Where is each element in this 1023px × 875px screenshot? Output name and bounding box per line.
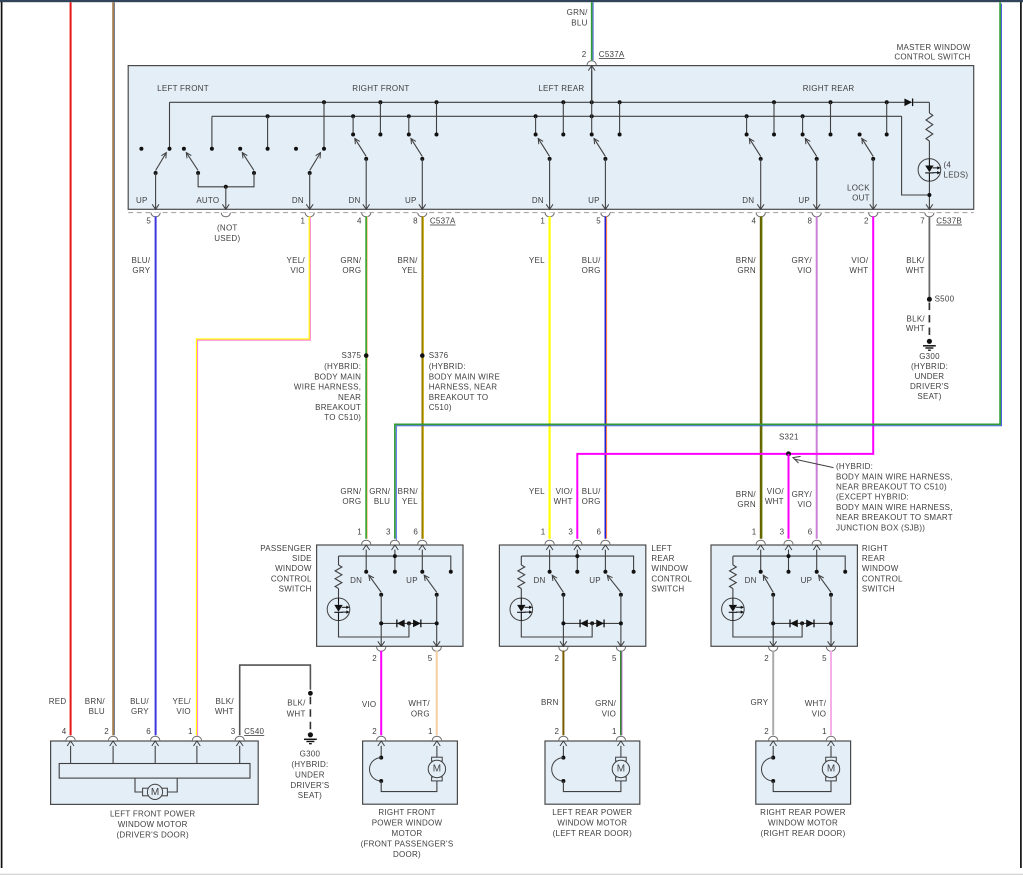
LF AUTO stem bbox=[225, 187, 227, 209]
svg-text:1: 1 bbox=[612, 727, 617, 736]
svg-text:CONTROL: CONTROL bbox=[862, 574, 903, 583]
RR UP stem to pin 8 bbox=[816, 159, 818, 209]
link to motor bbox=[381, 781, 437, 792]
svg-text:(DRIVER'S DOOR): (DRIVER'S DOOR) bbox=[117, 830, 189, 839]
svg-text:ORG: ORG bbox=[342, 497, 361, 506]
svg-text:HARNESS, NEAR: HARNESS, NEAR bbox=[429, 383, 498, 392]
svg-text:1: 1 bbox=[428, 727, 433, 736]
bus2 right drop to LED return bbox=[902, 116, 930, 195]
svg-text:JUNCTION BOX (SJB)): JUNCTION BOX (SJB)) bbox=[836, 523, 925, 532]
svg-text:DN: DN bbox=[292, 196, 304, 205]
svg-text:UP: UP bbox=[405, 196, 417, 205]
junction centre bbox=[800, 621, 804, 625]
svg-text:SEAT): SEAT) bbox=[917, 392, 941, 401]
svg-text:WIRE HARNESS,: WIRE HARNESS, bbox=[294, 383, 361, 392]
motor pin 6 entry bbox=[151, 736, 160, 740]
power window motor box bbox=[363, 741, 458, 804]
svg-text:CONTROL: CONTROL bbox=[651, 574, 692, 583]
svg-text:BODY MAIN WIRE: BODY MAIN WIRE bbox=[429, 372, 500, 381]
svg-text:DN: DN bbox=[742, 196, 754, 205]
svg-text:(HYBRID:: (HYBRID: bbox=[836, 462, 873, 471]
page left border bbox=[1, 2, 3, 868]
wire WHT/VIO right rear pin5 to motor pin 1 bbox=[830, 651, 832, 736]
RF UP stem to pin 8 bbox=[421, 159, 423, 209]
master window control switch box bbox=[128, 66, 974, 210]
junction right bbox=[829, 621, 833, 625]
svg-text:6: 6 bbox=[413, 527, 418, 536]
svg-text:(FRONT PASSENGER'S: (FRONT PASSENGER'S bbox=[361, 839, 454, 848]
lockout stem to pin 2 bbox=[872, 159, 874, 209]
wire RED (battery feed) bbox=[70, 2, 72, 735]
position switch arc bbox=[762, 758, 774, 781]
svg-text:SWITCH: SWITCH bbox=[862, 584, 895, 593]
junction centre bbox=[590, 621, 594, 625]
LED (4 LEDS) bbox=[928, 141, 930, 159]
svg-text:1: 1 bbox=[541, 527, 546, 536]
svg-text:DN: DN bbox=[534, 576, 546, 585]
diode left (points left) bbox=[790, 620, 798, 628]
svg-text:NEAR BREAKOUT TO C510): NEAR BREAKOUT TO C510) bbox=[836, 483, 947, 492]
LF UP pivot bbox=[154, 171, 158, 175]
svg-text:GRY/: GRY/ bbox=[792, 490, 813, 499]
LF AUTO pivot 2 bbox=[252, 171, 256, 175]
internal bus bar bbox=[59, 764, 250, 779]
window control switch box bbox=[711, 545, 857, 646]
wire BLK/WHT pin7 to S500 bbox=[928, 216, 930, 297]
drop bus1 to LF DN contact bbox=[323, 102, 325, 147]
svg-text:GRN/: GRN/ bbox=[369, 487, 391, 496]
drop from bus 2 bbox=[535, 116, 537, 133]
pin 1 entry bbox=[363, 545, 370, 550]
pin 3 contact bbox=[393, 570, 397, 574]
svg-text:VIO/: VIO/ bbox=[851, 256, 869, 265]
connector arc bbox=[390, 540, 399, 544]
wire BRN/BLU bbox=[112, 2, 114, 735]
svg-text:6: 6 bbox=[596, 527, 601, 536]
junction on bus 2 bbox=[590, 114, 594, 118]
DN stem to pin 2 bbox=[772, 595, 774, 646]
svg-text:G300: G300 bbox=[300, 750, 321, 759]
RF DN pivot bbox=[364, 157, 368, 161]
LF UP switch arm bbox=[156, 153, 167, 171]
diode crossover line bbox=[773, 622, 831, 624]
junction right bbox=[619, 621, 623, 625]
drop from bus 2 bbox=[746, 116, 748, 133]
drop from bus 1 bbox=[379, 102, 381, 133]
UP stem to pin 5 bbox=[620, 595, 622, 646]
drop from bus 2 bbox=[408, 116, 410, 133]
svg-text:5: 5 bbox=[428, 654, 433, 663]
svg-text:8: 8 bbox=[807, 217, 812, 226]
pin 3 contact bbox=[787, 570, 791, 574]
motor pin 2 entry bbox=[109, 736, 118, 740]
svg-text:BLU/: BLU/ bbox=[130, 697, 149, 706]
dashed BLK/WHT to left ground bbox=[309, 697, 311, 731]
position switch contact lower bbox=[561, 779, 565, 783]
svg-text:VIO: VIO bbox=[797, 266, 812, 275]
connector arc pin 4 bbox=[756, 213, 765, 217]
svg-text:GRY: GRY bbox=[750, 698, 768, 707]
LF DN switch arm bbox=[310, 153, 321, 171]
junction on bus 1 bbox=[772, 100, 776, 104]
svg-text:6: 6 bbox=[808, 527, 813, 536]
svg-text:1: 1 bbox=[188, 727, 193, 736]
DN switch arm bbox=[552, 575, 563, 592]
LR DN stem to pin 1 bbox=[549, 159, 551, 209]
svg-text:C537B: C537B bbox=[936, 217, 962, 226]
window control switch box bbox=[317, 545, 463, 646]
svg-text:USED): USED) bbox=[214, 234, 240, 243]
svg-text:BLU/: BLU/ bbox=[582, 256, 601, 265]
diode right (points right) bbox=[413, 620, 421, 628]
svg-text:YEL: YEL bbox=[402, 497, 418, 506]
position switch contact upper bbox=[561, 756, 565, 760]
illumination resistor bbox=[338, 556, 340, 565]
svg-text:GRY/: GRY/ bbox=[791, 256, 812, 265]
power window motor box bbox=[545, 741, 640, 804]
svg-text:UP: UP bbox=[136, 196, 148, 205]
motor M bbox=[616, 757, 627, 761]
svg-text:4: 4 bbox=[751, 217, 756, 226]
diode right (points right) bbox=[806, 620, 814, 628]
svg-text:ORG: ORG bbox=[342, 266, 361, 275]
svg-text:1: 1 bbox=[357, 527, 362, 536]
svg-text:TO C510): TO C510) bbox=[324, 413, 361, 422]
LF contact dots bbox=[139, 147, 143, 151]
wire GRY right rear pin2 to motor pin 2 bbox=[772, 651, 774, 736]
svg-text:S375: S375 bbox=[342, 351, 362, 360]
svg-text:SWITCH: SWITCH bbox=[651, 584, 684, 593]
junction left bbox=[379, 621, 383, 625]
drop from bus 2 bbox=[352, 116, 354, 133]
svg-text:MOTOR: MOTOR bbox=[392, 829, 423, 838]
lockout pivot bbox=[871, 157, 875, 161]
motor M bbox=[432, 757, 443, 761]
svg-text:2: 2 bbox=[864, 217, 869, 226]
svg-text:BLU: BLU bbox=[374, 497, 390, 506]
svg-text:SEAT): SEAT) bbox=[298, 791, 322, 800]
LR UP stem to pin 5 bbox=[604, 159, 606, 209]
wire BLU/GRY pin5 to motor pin 6 bbox=[155, 216, 157, 735]
pin 6 entry bbox=[602, 545, 609, 550]
svg-text:(HYBRID:: (HYBRID: bbox=[911, 362, 948, 371]
junction right bbox=[435, 621, 439, 625]
svg-text:CONTROL SWITCH: CONTROL SWITCH bbox=[894, 53, 970, 62]
connector arc pin 5 bbox=[601, 213, 610, 217]
DN stem to pin 2 bbox=[380, 595, 382, 646]
motor M (left front) bbox=[135, 778, 143, 792]
svg-text:GRN/: GRN/ bbox=[340, 487, 362, 496]
svg-text:VIO/: VIO/ bbox=[556, 487, 574, 496]
wire GRN/BLU to pin 2 top bbox=[591, 2, 593, 60]
svg-text:BRN/: BRN/ bbox=[397, 256, 418, 265]
svg-text:2: 2 bbox=[554, 727, 559, 736]
diode D1 on bus 1 bbox=[904, 99, 912, 107]
pin 6 entry bbox=[419, 545, 426, 550]
svg-text:CONTROL: CONTROL bbox=[271, 574, 312, 583]
svg-text:LEFT REAR: LEFT REAR bbox=[538, 84, 584, 93]
RF contact dots bbox=[351, 133, 355, 137]
svg-text:DRIVER'S: DRIVER'S bbox=[290, 781, 329, 790]
UP switch arm bbox=[424, 575, 437, 592]
svg-text:BREAKOUT: BREAKOUT bbox=[315, 403, 361, 412]
junction on bus 1 bbox=[885, 100, 889, 104]
RR UP switch arm bbox=[805, 138, 816, 156]
svg-text:DOOR): DOOR) bbox=[393, 850, 421, 859]
drop from bus 1 bbox=[773, 102, 775, 133]
drop from bus 1 bbox=[830, 102, 832, 133]
svg-text:NEAR BREAKOUT TO SMART: NEAR BREAKOUT TO SMART bbox=[836, 513, 953, 522]
bus2 left drop to contact bbox=[211, 116, 213, 147]
pin 3 entry bbox=[392, 545, 399, 550]
svg-text:VIO: VIO bbox=[797, 500, 812, 509]
svg-text:LEFT REAR POWER: LEFT REAR POWER bbox=[552, 808, 632, 817]
wire BLK/WHT motor pin 3 to G300 (left) bbox=[240, 665, 311, 735]
wire VIO/WHT S321 branch to right rear switch pin 3 bbox=[788, 454, 790, 539]
junction on bus 1 bbox=[829, 100, 833, 104]
connector arc bbox=[362, 540, 371, 544]
pin 2 entry bbox=[559, 736, 568, 740]
junction left bbox=[771, 621, 775, 625]
svg-text:LEDS): LEDS) bbox=[944, 171, 969, 180]
connector arc bbox=[573, 540, 582, 544]
pin 2 feed vertical inside box bbox=[591, 66, 593, 133]
drop from bus 1 bbox=[886, 102, 888, 133]
svg-text:2: 2 bbox=[372, 654, 377, 663]
junction on bus 2 bbox=[351, 114, 355, 118]
wire GRY/VIO pin8 to right rear switch pin 6 bbox=[816, 216, 818, 538]
svg-text:UNDER: UNDER bbox=[295, 770, 325, 779]
svg-text:3: 3 bbox=[568, 527, 573, 536]
diode crossover line bbox=[381, 622, 437, 624]
rail right contact bbox=[843, 570, 847, 574]
junction on bus 2 bbox=[745, 114, 749, 118]
svg-text:MASTER WINDOW: MASTER WINDOW bbox=[897, 43, 971, 52]
svg-text:6: 6 bbox=[146, 727, 151, 736]
RF DN stem to pin 4 bbox=[365, 159, 367, 209]
illumination resistor bbox=[520, 556, 522, 565]
wire YEL/VIO pin1 to motor pin 1 bbox=[197, 216, 310, 735]
LR UP switch arm bbox=[594, 138, 605, 156]
svg-text:RIGHT: RIGHT bbox=[862, 544, 888, 553]
svg-text:WHT/: WHT/ bbox=[805, 699, 827, 708]
svg-text:LEFT: LEFT bbox=[651, 544, 672, 553]
svg-text:DRIVER'S: DRIVER'S bbox=[910, 382, 949, 391]
pin 1 entry bbox=[757, 545, 764, 550]
LF UP stem to pin 5 bbox=[155, 173, 157, 209]
pin 2 entry bbox=[377, 736, 386, 740]
junction centre bbox=[407, 621, 411, 625]
UP switch arm bbox=[607, 575, 621, 592]
LF AUTO U link bbox=[198, 173, 254, 187]
connector arc bbox=[377, 647, 386, 651]
RF UP switch arm bbox=[411, 138, 422, 156]
pin 2 entry bbox=[769, 736, 778, 740]
svg-text:2: 2 bbox=[582, 50, 587, 59]
svg-text:BREAKOUT TO: BREAKOUT TO bbox=[429, 393, 489, 402]
drop from bus 2 bbox=[802, 116, 804, 133]
svg-text:BRN/: BRN/ bbox=[736, 490, 757, 499]
DN pivot bbox=[379, 593, 383, 597]
wire YEL pin1 to left rear switch pin 1 bbox=[548, 216, 550, 538]
LEFT FRONT POWER WINDOW MOTOR box bbox=[51, 741, 259, 804]
svg-text:(NOT: (NOT bbox=[217, 224, 238, 233]
svg-text:M: M bbox=[827, 764, 835, 775]
DN stem to pin 2 bbox=[562, 595, 564, 646]
svg-text:GRY: GRY bbox=[132, 266, 150, 275]
junction left bbox=[561, 621, 565, 625]
svg-text:BRN/: BRN/ bbox=[398, 487, 419, 496]
svg-text:DN: DN bbox=[348, 196, 360, 205]
svg-text:2: 2 bbox=[764, 727, 769, 736]
position switch arc bbox=[370, 758, 382, 781]
lockout switch arm bbox=[862, 138, 873, 156]
svg-text:UP: UP bbox=[588, 196, 600, 205]
LF AUTO centre junction bbox=[224, 185, 228, 189]
svg-text:2: 2 bbox=[372, 727, 377, 736]
position switch contact lower bbox=[771, 779, 775, 783]
svg-text:BODY MAIN WIRE HARNESS,: BODY MAIN WIRE HARNESS, bbox=[836, 503, 953, 512]
svg-text:WHT: WHT bbox=[215, 707, 234, 716]
svg-text:DN: DN bbox=[532, 196, 544, 205]
RR contact dots bbox=[745, 133, 749, 137]
wire GRN/ORG pin4 to passenger switch pin 1 bbox=[365, 216, 367, 538]
svg-text:M: M bbox=[617, 764, 625, 775]
svg-text:(HYBRID:: (HYBRID: bbox=[291, 760, 328, 769]
connector arc pin 1 bbox=[305, 213, 314, 217]
pin 3 contact bbox=[575, 570, 579, 574]
svg-text:4: 4 bbox=[62, 727, 67, 736]
svg-text:BLK/: BLK/ bbox=[287, 699, 306, 708]
drop from bus 2 bbox=[267, 116, 269, 147]
splice S321 bbox=[786, 451, 791, 456]
svg-text:ORG: ORG bbox=[411, 709, 430, 718]
svg-text:5: 5 bbox=[822, 654, 827, 663]
svg-text:7: 7 bbox=[920, 217, 925, 226]
rail right contact bbox=[449, 570, 453, 574]
pin 6 entry bbox=[813, 545, 820, 550]
junction on bus 1 bbox=[378, 100, 382, 104]
svg-text:VIO: VIO bbox=[812, 709, 827, 718]
UP switch arm bbox=[819, 575, 831, 592]
connector arc bbox=[559, 647, 568, 651]
motor pin 4 entry bbox=[66, 736, 75, 740]
svg-text:WHT: WHT bbox=[554, 497, 573, 506]
connector arc bbox=[769, 647, 778, 651]
svg-text:UP: UP bbox=[798, 196, 810, 205]
svg-text:YEL: YEL bbox=[402, 266, 418, 275]
svg-text:(4: (4 bbox=[944, 161, 952, 170]
svg-text:SWITCH: SWITCH bbox=[279, 584, 312, 593]
junction on bus 2 bbox=[801, 114, 805, 118]
connector arc pin 1 bbox=[545, 213, 554, 217]
connector arc bbox=[545, 540, 554, 544]
RF UP pivot bbox=[420, 157, 424, 161]
svg-text:(EXCEPT HYBRID:: (EXCEPT HYBRID: bbox=[836, 493, 909, 502]
svg-text:RIGHT FRONT: RIGHT FRONT bbox=[378, 808, 435, 817]
svg-text:RIGHT REAR POWER: RIGHT REAR POWER bbox=[760, 808, 846, 817]
svg-text:LOCK: LOCK bbox=[847, 184, 870, 193]
connector arc bbox=[418, 540, 427, 544]
svg-text:POWER WINDOW: POWER WINDOW bbox=[372, 819, 443, 828]
svg-text:UP: UP bbox=[801, 576, 813, 585]
svg-text:4: 4 bbox=[357, 217, 362, 226]
DN pivot bbox=[771, 593, 775, 597]
svg-text:UNDER: UNDER bbox=[915, 372, 945, 381]
svg-text:5: 5 bbox=[596, 217, 601, 226]
svg-text:VIO: VIO bbox=[362, 700, 377, 709]
svg-text:M: M bbox=[151, 787, 159, 798]
junction on bus 2 bbox=[534, 114, 538, 118]
svg-text:WHT/: WHT/ bbox=[408, 699, 430, 708]
pin 1 entry bbox=[546, 545, 553, 550]
svg-text:VIO/: VIO/ bbox=[767, 487, 785, 496]
S321 callout leader bbox=[795, 459, 834, 467]
position switch contact upper bbox=[771, 756, 775, 760]
svg-text:VIO: VIO bbox=[602, 709, 617, 718]
svg-text:(LEFT REAR DOOR): (LEFT REAR DOOR) bbox=[553, 829, 633, 838]
drop from bus 1 bbox=[562, 102, 564, 133]
svg-text:YEL: YEL bbox=[529, 487, 545, 496]
svg-text:WHT: WHT bbox=[906, 266, 925, 275]
connector arc bbox=[601, 540, 610, 544]
RR DN pivot bbox=[759, 157, 763, 161]
motor pin 3 entry bbox=[235, 736, 244, 740]
svg-text:WHT: WHT bbox=[906, 324, 925, 333]
LF AUTO switch arm 1 bbox=[186, 153, 198, 171]
connector arc pin 5 bbox=[151, 213, 160, 217]
RR DN switch arm bbox=[749, 138, 760, 156]
connector arc pin 8 bbox=[812, 213, 821, 217]
diode left (points left) bbox=[397, 620, 405, 628]
svg-text:C537A: C537A bbox=[430, 217, 456, 226]
wire BRN left rear pin2 to motor pin 2 bbox=[562, 651, 564, 736]
LF DN stem to pin 1 bbox=[309, 173, 311, 209]
svg-text:WHT: WHT bbox=[765, 497, 784, 506]
svg-text:UP: UP bbox=[589, 576, 601, 585]
svg-text:GRN/: GRN/ bbox=[567, 8, 589, 17]
svg-text:BLU/: BLU/ bbox=[132, 256, 151, 265]
svg-text:S321: S321 bbox=[779, 433, 799, 442]
svg-text:NEAR: NEAR bbox=[338, 393, 361, 402]
svg-text:RED: RED bbox=[49, 697, 67, 706]
svg-text:PASSENGER: PASSENGER bbox=[260, 544, 311, 553]
svg-text:2: 2 bbox=[764, 654, 769, 663]
svg-text:GRN/: GRN/ bbox=[340, 256, 362, 265]
connector arc pin 2 bbox=[869, 213, 878, 217]
link to motor bbox=[563, 781, 621, 792]
page top bar bbox=[0, 0, 1023, 2]
UP pivot bbox=[435, 593, 439, 597]
wire BLU/ORG pin5 to left rear switch pin 6 bbox=[604, 216, 606, 538]
internal feed rail bbox=[339, 556, 451, 572]
position switch contact lower bbox=[379, 779, 383, 783]
svg-text:ORG: ORG bbox=[582, 497, 601, 506]
svg-text:BODY MAIN WIRE HARNESS,: BODY MAIN WIRE HARNESS, bbox=[836, 472, 953, 481]
resistor R1 bbox=[928, 102, 930, 113]
connector arc pin 4 bbox=[362, 213, 371, 217]
LED return line bbox=[521, 621, 592, 637]
svg-text:C537A: C537A bbox=[599, 50, 625, 59]
DN switch arm bbox=[369, 575, 381, 592]
svg-text:S500: S500 bbox=[935, 294, 955, 303]
illumination LED bbox=[338, 589, 340, 599]
page bottom edge line bbox=[0, 873, 1023, 875]
svg-text:WINDOW MOTOR: WINDOW MOTOR bbox=[768, 819, 838, 828]
LR UP pivot bbox=[603, 157, 607, 161]
diode right (points right) bbox=[596, 620, 604, 628]
svg-text:REAR: REAR bbox=[651, 554, 674, 563]
